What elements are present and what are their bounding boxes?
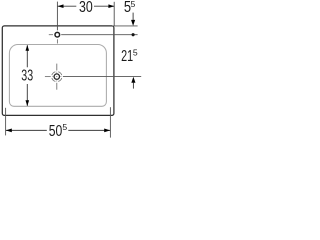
drain outer dashed circle (4 arcs) [52, 72, 62, 82]
drain tick down [56, 83, 58, 90]
drain center dot [56, 76, 57, 77]
faucet hole circle [55, 32, 60, 37]
dim 50.5 left extension line [5, 108, 7, 136]
dim 50.5 line right segment [68, 129, 110, 131]
dim 30 line left segment [58, 5, 77, 7]
dim 30 line right segment [94, 5, 114, 7]
faucet hole centerline vertical (extension for dim 30) [56, 2, 58, 31]
svg-text:33: 33 [21, 67, 33, 84]
svg-text:5: 5 [62, 122, 67, 132]
drain inner tick right [60, 76, 62, 78]
svg-text:21: 21 [121, 47, 133, 64]
dim 30 right arrowhead [108, 4, 114, 8]
dim 33 line upper segment [26, 45, 28, 67]
faucet hole right extension line [61, 34, 137, 36]
dim 50.5 right arrowhead [104, 129, 110, 133]
dim 5.5/21.5 dot marker [132, 33, 135, 36]
drain inner circle [54, 74, 59, 79]
svg-text:30: 30 [79, 0, 93, 15]
top edge extension to right [112, 25, 138, 27]
basin bowl outline [9, 44, 106, 106]
drain inner tick up [56, 72, 58, 74]
dim 50.5 right extension line [109, 107, 111, 137]
dim 21.5 arrowhead up [131, 77, 135, 83]
drain inner tick left [52, 76, 54, 78]
dim 33 arrowhead up [26, 45, 30, 51]
dim 5.5 arrow stem [132, 13, 134, 21]
dim 33 line lower segment [26, 84, 28, 106]
drain centerline right extension [63, 76, 141, 78]
svg-text:5: 5 [133, 48, 138, 58]
drain tick up [56, 64, 58, 71]
right edge extension above corner [113, 2, 115, 26]
drain tick left [45, 76, 51, 78]
dim 5.5 arrowhead down [131, 20, 135, 26]
svg-text:5: 5 [131, 0, 136, 9]
svg-text:50: 50 [49, 121, 63, 139]
dim 21.5 arrow stem [132, 82, 134, 88]
drain inner tick down [56, 80, 58, 82]
faucet hole left tick [49, 34, 53, 36]
washbasin outer rim rect [2, 26, 114, 116]
dim 50.5 line left segment [6, 129, 47, 131]
dim 50.5 left arrowhead [6, 129, 12, 133]
faucet hole lower tick [56, 39, 58, 43]
dim 30 left arrowhead [58, 4, 64, 8]
dim 33 arrowhead down [26, 100, 30, 106]
